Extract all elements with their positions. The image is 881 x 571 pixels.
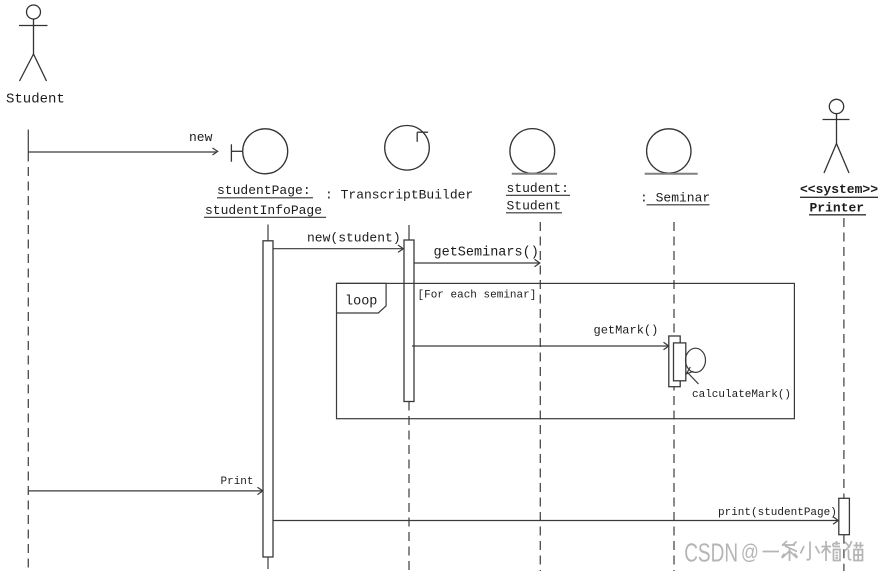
svg-text:studentInfoPage: studentInfoPage xyxy=(205,203,322,218)
svg-text:studentPage:: studentPage: xyxy=(217,183,311,198)
svg-text:Print: Print xyxy=(221,476,254,488)
svg-text:print(studentPage): print(studentPage) xyxy=(718,507,837,519)
svg-text:: Seminar: : Seminar xyxy=(640,191,710,206)
svg-text:loop: loop xyxy=(345,295,377,310)
svg-text:: TranscriptBuilder: : TranscriptBuilder xyxy=(325,188,473,203)
svg-text:Student: Student xyxy=(507,199,562,214)
svg-text:student:: student: xyxy=(507,181,569,196)
svg-text:Printer: Printer xyxy=(810,201,865,216)
svg-text:Student: Student xyxy=(6,92,65,108)
svg-text:calculateMark(): calculateMark() xyxy=(692,389,791,401)
svg-text:<<system>>: <<system>> xyxy=(800,182,878,197)
svg-text:getSeminars(): getSeminars() xyxy=(434,246,539,261)
svg-text:new: new xyxy=(189,130,213,145)
svg-text:new(student): new(student) xyxy=(307,231,401,246)
svg-text:getMark(): getMark() xyxy=(594,324,659,338)
svg-text:@: @ xyxy=(741,540,759,564)
svg-text:[For each seminar]: [For each seminar] xyxy=(418,290,537,302)
svg-text:CSDN: CSDN xyxy=(684,538,738,568)
